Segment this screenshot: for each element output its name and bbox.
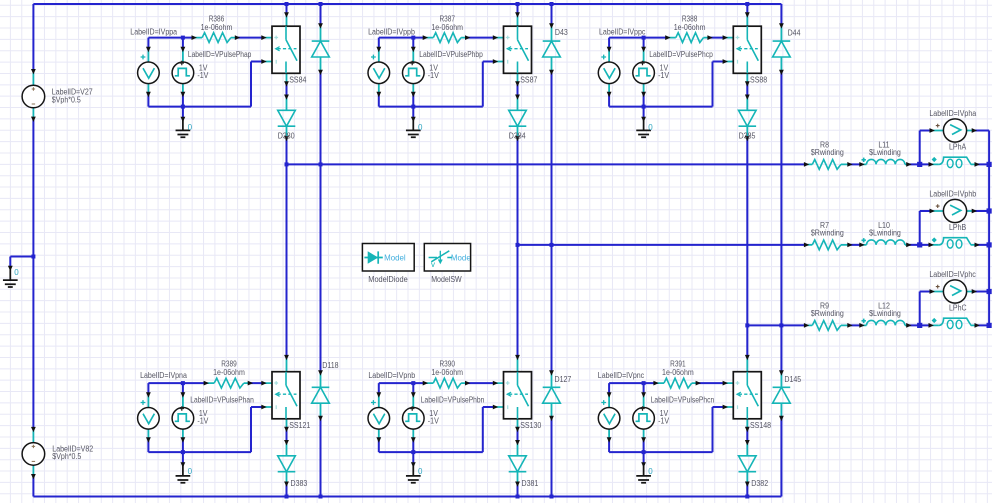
svg-text:LabelID=IVphb: LabelID=IVphb — [929, 189, 976, 198]
svg-text:ModelSW: ModelSW — [431, 275, 462, 284]
svg-text:1e-06ohm: 1e-06ohm — [431, 368, 463, 377]
svg-text:1e-06ohm: 1e-06ohm — [213, 368, 245, 377]
svg-text:LabelID=IVpnc: LabelID=IVpnc — [598, 371, 644, 380]
svg-text:0: 0 — [14, 268, 19, 277]
svg-text:1e-06ohm: 1e-06ohm — [431, 23, 463, 32]
svg-text:SS130: SS130 — [520, 421, 542, 430]
svg-text:-1V: -1V — [658, 417, 670, 426]
svg-text:0: 0 — [418, 123, 423, 132]
svg-text:$Lwinding: $Lwinding — [869, 148, 901, 157]
svg-text:$Rwinding: $Rwinding — [811, 229, 844, 238]
svg-text:-1V: -1V — [658, 71, 670, 80]
svg-text:LabelID=IVppb: LabelID=IVppb — [368, 27, 415, 36]
svg-text:LabelID=IVphc: LabelID=IVphc — [929, 270, 975, 279]
svg-text:SS84: SS84 — [289, 76, 307, 85]
svg-text:D383: D383 — [291, 479, 308, 488]
svg-text:LPhA: LPhA — [949, 143, 967, 152]
svg-text:D380: D380 — [278, 132, 295, 141]
svg-text:D43: D43 — [555, 28, 568, 37]
svg-text:D127: D127 — [555, 375, 572, 384]
svg-text:LabelID=IVpna: LabelID=IVpna — [140, 371, 187, 380]
svg-text:v: v — [431, 260, 435, 269]
svg-text:LPhB: LPhB — [949, 223, 966, 232]
svg-text:R390: R390 — [439, 359, 455, 368]
svg-text:0: 0 — [418, 467, 423, 476]
svg-text:LPhC: LPhC — [949, 304, 967, 313]
svg-text:LabelID=IVppc: LabelID=IVppc — [599, 27, 645, 36]
svg-text:SS121: SS121 — [289, 421, 311, 430]
svg-text:ModelDiode: ModelDiode — [368, 275, 408, 284]
svg-text:$Lwinding: $Lwinding — [869, 229, 901, 238]
svg-text:$Lwinding: $Lwinding — [869, 309, 901, 318]
svg-text:LabelID=VPulsePhcp: LabelID=VPulsePhcp — [649, 50, 713, 59]
svg-text:LabelID=VPulsePhap: LabelID=VPulsePhap — [188, 50, 252, 59]
svg-text:D382: D382 — [751, 479, 768, 488]
svg-text:LabelID=VPulsePhcn: LabelID=VPulsePhcn — [651, 396, 715, 405]
svg-text:LabelID=IVpnb: LabelID=IVpnb — [368, 371, 415, 380]
svg-text:D385: D385 — [739, 132, 756, 141]
svg-text:R391: R391 — [670, 359, 686, 368]
svg-text:-1V: -1V — [428, 71, 440, 80]
svg-text:$Rwinding: $Rwinding — [811, 148, 844, 157]
svg-text:SS88: SS88 — [750, 76, 768, 85]
svg-text:SS87: SS87 — [520, 76, 538, 85]
svg-text:1e-06ohm: 1e-06ohm — [674, 23, 706, 32]
svg-text:$Vph*0.5: $Vph*0.5 — [52, 95, 81, 104]
svg-text:-1V: -1V — [197, 71, 209, 80]
svg-text:$Vph*0.5: $Vph*0.5 — [52, 452, 81, 461]
svg-text:-1V: -1V — [197, 417, 209, 426]
svg-text:LabelID=IVppa: LabelID=IVppa — [130, 27, 177, 36]
svg-text:LabelID=VPulsePhan: LabelID=VPulsePhan — [190, 396, 254, 405]
svg-text:D44: D44 — [788, 29, 801, 38]
svg-text:0: 0 — [188, 123, 193, 132]
svg-text:LabelID=IVpha: LabelID=IVpha — [929, 109, 976, 118]
svg-text:-1V: -1V — [428, 417, 440, 426]
svg-text:D384: D384 — [509, 132, 526, 141]
svg-text:R389: R389 — [221, 359, 237, 368]
svg-text:1e-06ohm: 1e-06ohm — [201, 23, 233, 32]
svg-text:SS148: SS148 — [750, 421, 772, 430]
svg-text:$Rwinding: $Rwinding — [811, 309, 844, 318]
svg-text:LabelID=VPulsePhbp: LabelID=VPulsePhbp — [419, 50, 483, 59]
svg-text:D381: D381 — [522, 479, 539, 488]
svg-text:Model: Model — [384, 254, 406, 263]
svg-text:D118: D118 — [322, 361, 339, 370]
svg-text:0: 0 — [648, 467, 653, 476]
svg-text:D145: D145 — [784, 375, 801, 384]
svg-text:LabelID=VPulsePhbn: LabelID=VPulsePhbn — [421, 396, 485, 405]
svg-text:Model: Model — [451, 254, 473, 263]
svg-text:0: 0 — [188, 467, 193, 476]
svg-text:0: 0 — [648, 123, 653, 132]
svg-text:1e-06ohm: 1e-06ohm — [662, 368, 694, 377]
